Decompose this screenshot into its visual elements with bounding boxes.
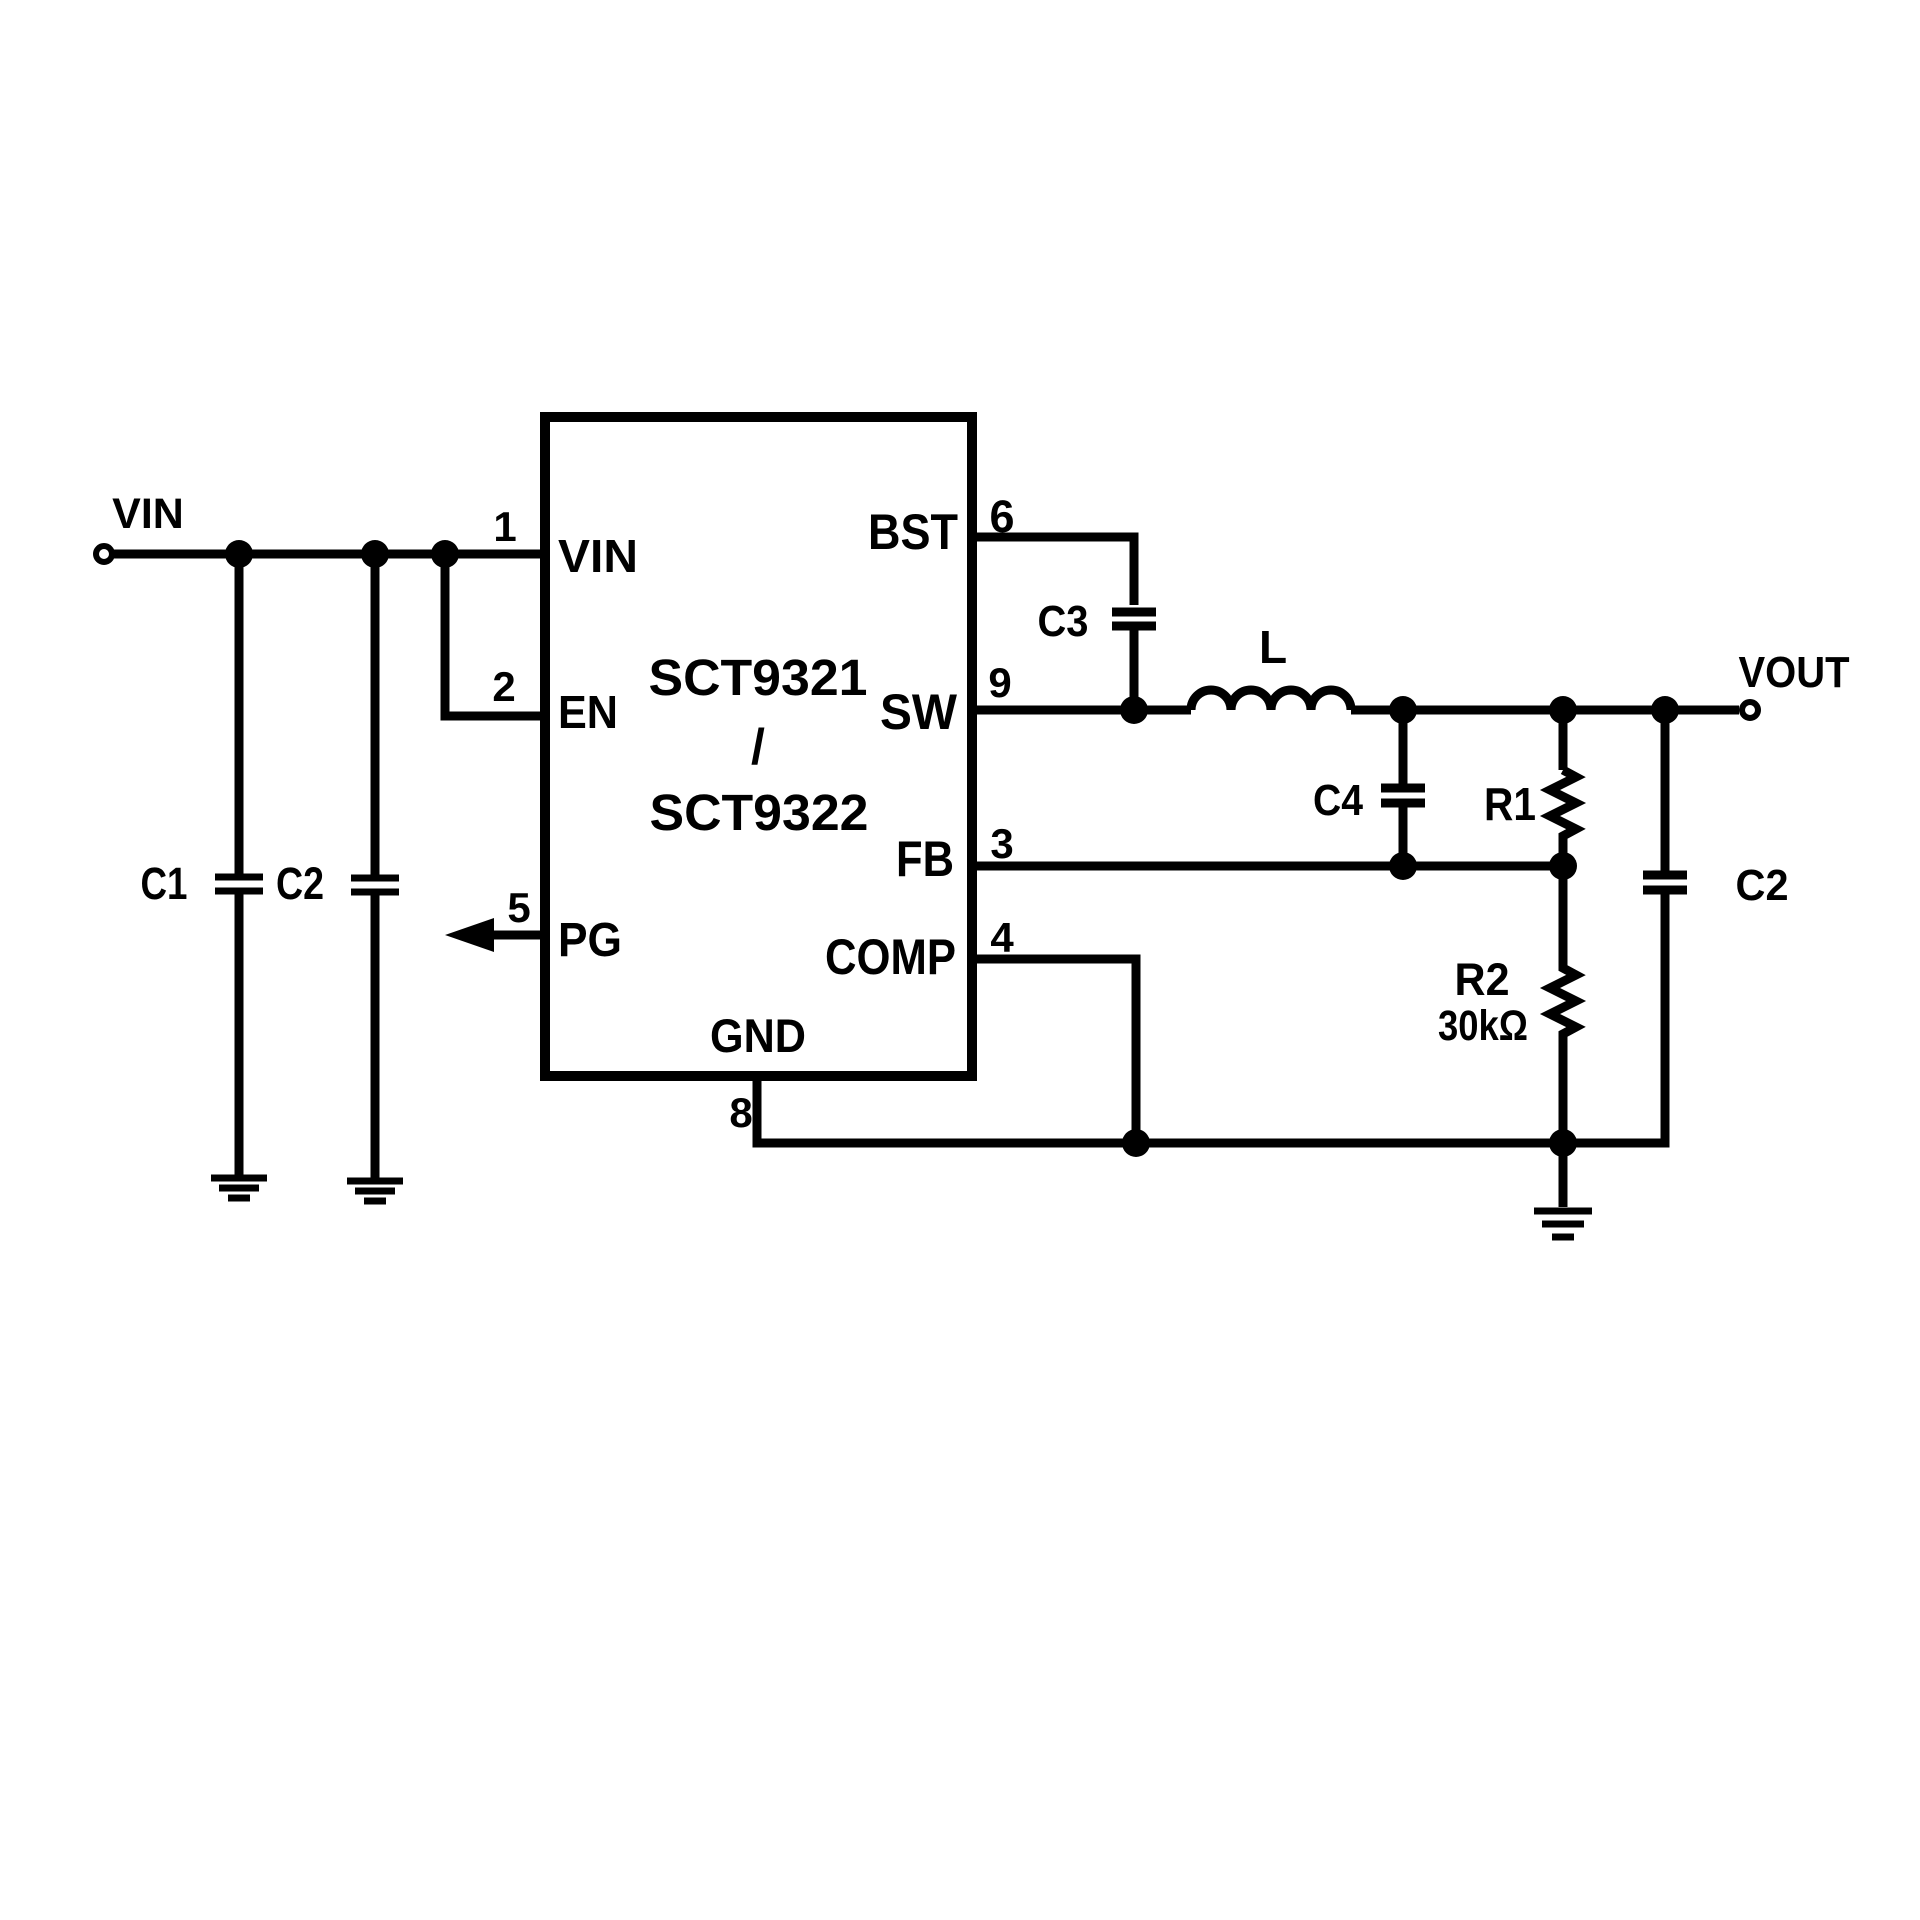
svg-text:PG: PG — [558, 914, 622, 967]
svg-text:BST: BST — [868, 504, 958, 560]
svg-text:8: 8 — [729, 1089, 752, 1136]
svg-text:30kΩ: 30kΩ — [1438, 1002, 1528, 1050]
svg-text:C3: C3 — [1038, 597, 1089, 646]
svg-text:EN: EN — [558, 686, 618, 738]
svg-text:C1: C1 — [141, 858, 188, 909]
svg-text:6: 6 — [989, 491, 1014, 542]
svg-text:SCT9322: SCT9322 — [650, 784, 869, 841]
svg-text:C2: C2 — [276, 858, 324, 909]
svg-text:4: 4 — [990, 914, 1014, 961]
svg-text:VIN: VIN — [112, 490, 184, 538]
svg-text:2: 2 — [492, 663, 515, 710]
svg-text:R2: R2 — [1455, 954, 1510, 1005]
svg-text:3: 3 — [990, 820, 1013, 867]
svg-text:GND: GND — [710, 1009, 806, 1062]
svg-text:C4: C4 — [1313, 776, 1363, 825]
svg-text:L: L — [1259, 621, 1287, 673]
svg-text:5: 5 — [507, 884, 530, 931]
svg-text:VIN: VIN — [558, 530, 638, 582]
svg-text:COMP: COMP — [825, 929, 956, 985]
svg-text:1: 1 — [493, 503, 516, 550]
svg-text:FB: FB — [896, 831, 954, 887]
svg-text:C2: C2 — [1736, 861, 1789, 910]
svg-text:R1: R1 — [1484, 778, 1536, 830]
svg-text:9: 9 — [988, 659, 1011, 706]
svg-text:VOUT: VOUT — [1739, 648, 1850, 697]
svg-text:SCT9321: SCT9321 — [649, 649, 868, 706]
svg-text:SW: SW — [880, 684, 958, 740]
svg-text:/: / — [751, 719, 765, 775]
